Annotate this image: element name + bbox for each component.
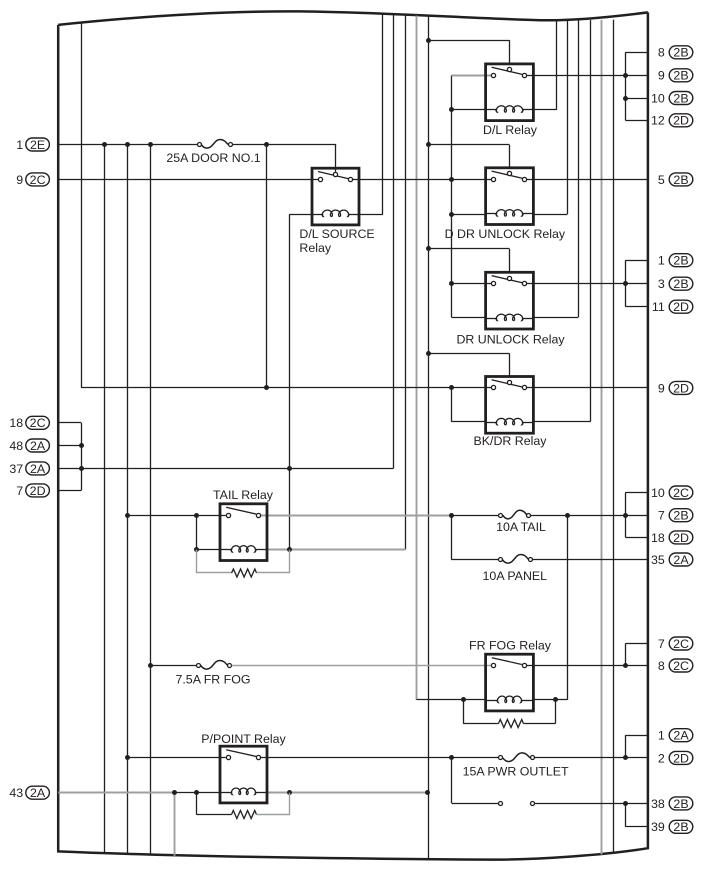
wire: bus x=451.9 segment PWR OUTLET row to 38(2B) row xyxy=(451,758,453,804)
wire: bus x=451.5 (coil feed) from D/L relay input row to DR UNLOCK coil xyxy=(451,75,453,317)
wire: bus x=290 D/L SOURCE coil-left down to TAIL coil row xyxy=(289,214,291,549)
wire: D DR UNLOCK relay top-pin feed xyxy=(428,144,510,146)
fuse F2 10A TAIL xyxy=(499,514,503,518)
wire: 7(2D) stub xyxy=(58,490,81,492)
wire: BK/DR coil-left from bus 451 xyxy=(452,421,487,423)
svg-text:18: 18 xyxy=(651,531,665,545)
wire: D/L relay output row to 9(2B) xyxy=(527,75,648,77)
wire: BK/DR relay top-pin feed xyxy=(428,353,510,355)
svg-text:2: 2 xyxy=(658,751,665,765)
wire: bus x=428 from top border to bottom border xyxy=(428,16,430,860)
svg-text:39: 39 xyxy=(651,820,665,834)
svg-text:10: 10 xyxy=(651,91,665,105)
svg-text:2C: 2C xyxy=(673,659,689,673)
svg-text:2B: 2B xyxy=(673,820,688,834)
wire: TAIL bypass left vertical xyxy=(196,515,198,549)
svg-text:D DR UNLOCK Relay: D DR UNLOCK Relay xyxy=(445,227,566,241)
fuse F5 15A PWR OUTLET xyxy=(499,756,503,760)
svg-text:7: 7 xyxy=(658,637,665,651)
resistor TAIL bypass xyxy=(196,550,198,573)
wire: 37(2A) row to bus 393.6 xyxy=(58,468,393,470)
wire: 9(2C) row to D/L SOURCE relay xyxy=(58,179,318,181)
wire: D DR UNLOCK output row to 5(2B) xyxy=(527,179,648,181)
svg-text:2B: 2B xyxy=(673,69,688,83)
svg-text:2D: 2D xyxy=(673,751,689,765)
svg-text:9: 9 xyxy=(658,69,665,83)
svg-text:2B: 2B xyxy=(673,46,688,60)
svg-text:37: 37 xyxy=(9,462,23,476)
svg-text:2D: 2D xyxy=(673,114,689,128)
fuse F4 7.5A FR FOG xyxy=(197,664,201,668)
svg-text:1: 1 xyxy=(658,254,665,268)
svg-text:D/L Relay: D/L Relay xyxy=(483,123,538,137)
svg-text:2A: 2A xyxy=(30,462,46,476)
svg-text:2D: 2D xyxy=(673,531,689,545)
wire: 43(2A) row (gray) to coil branch xyxy=(58,792,174,794)
wire: bracket 38(2B)-39(2B) xyxy=(625,803,627,826)
wire: D/L SOURCE coil-left lead xyxy=(289,214,313,216)
svg-text:2A: 2A xyxy=(30,786,46,800)
svg-text:5: 5 xyxy=(658,173,665,187)
svg-text:Relay: Relay xyxy=(299,241,331,255)
svg-text:2C: 2C xyxy=(673,486,689,500)
wire: DR UNLOCK input from bus 451 xyxy=(452,283,492,285)
svg-text:2A: 2A xyxy=(673,553,689,567)
svg-text:2B: 2B xyxy=(673,173,688,187)
wire: D/L SOURCE output to D DR UNLOCK relay input xyxy=(353,179,492,181)
relay P/POINT Relay xyxy=(201,732,286,803)
svg-text:2C: 2C xyxy=(673,637,689,651)
relay BK/DR Relay xyxy=(474,377,548,448)
svg-text:TAIL Relay: TAIL Relay xyxy=(213,488,274,502)
junction dots on 1(2E) row xyxy=(102,142,107,147)
svg-text:2D: 2D xyxy=(673,381,689,395)
svg-text:2B: 2B xyxy=(673,91,688,105)
wire: bus x=567.5 top border to D DR UNLOCK coil-right xyxy=(567,20,569,214)
wire: DR UNLOCK coil-left to bus 451 xyxy=(452,317,487,319)
wire: D/L SOURCE coil-right lead xyxy=(358,214,383,216)
relay D/L Relay xyxy=(483,64,538,137)
svg-text:7: 7 xyxy=(16,484,23,498)
wire: 1(2E) / 25A DOOR NO.1 row xyxy=(58,144,197,146)
wire: D/L SOURCE relay top-pin feed xyxy=(335,145,337,172)
wire: gray bus x=416.4 from top border to FR FOG coil row xyxy=(416,16,418,700)
wire: bus x=104.5 from 1(2E) row to bottom border xyxy=(104,145,106,854)
wire: bus x=382 D/L SOURCE coil-right up to top border xyxy=(382,14,384,214)
svg-text:8: 8 xyxy=(658,659,665,673)
wire: FR FOG output row to 8(2C) xyxy=(527,665,648,667)
relay FR FOG Relay xyxy=(469,639,552,711)
wire: BK/DR coil-right to bus 590 xyxy=(533,421,591,423)
wire: bus x=266 from 25A DOOR junction down to BK/DR row xyxy=(266,145,268,388)
relay D/L SOURCE Relay xyxy=(299,168,374,255)
wire: DR UNLOCK coil-right to bus 578 xyxy=(533,317,578,319)
wire: 7.5A FR FOG row from bus 150 xyxy=(150,665,196,667)
svg-text:12: 12 xyxy=(651,114,665,128)
wire: TAIL output (gray) to 10A TAIL fuse xyxy=(261,515,451,517)
wire: BK/DR output row to 9(2D) xyxy=(527,387,648,389)
svg-text:2C: 2C xyxy=(30,173,46,187)
svg-text:38: 38 xyxy=(651,797,665,811)
svg-text:10A TAIL: 10A TAIL xyxy=(496,520,546,534)
wire: left connector bracket 18(2C)-7(2D) xyxy=(81,423,83,491)
junction dot bracket 9(2B) xyxy=(623,73,628,78)
wire: bus x=393.6 from top border to 37(2A) row xyxy=(393,14,395,468)
svg-text:18: 18 xyxy=(9,416,23,430)
wire: DR UNLOCK relay top-pin feed xyxy=(428,248,510,250)
svg-text:25A DOOR NO.1: 25A DOOR NO.1 xyxy=(166,151,260,165)
svg-text:D/L SOURCE: D/L SOURCE xyxy=(299,227,374,241)
wire: bus x=567 segment 10A TAIL row to FR FOG coil node xyxy=(567,516,569,700)
wire: gray branch of 43(2A) row down to bottom border xyxy=(174,793,176,856)
wire: BK/DR input row from bus 81 xyxy=(81,387,492,389)
svg-text:8: 8 xyxy=(658,46,665,60)
svg-text:1: 1 xyxy=(658,729,665,743)
svg-text:10A PANEL: 10A PANEL xyxy=(483,569,548,583)
svg-text:7.5A FR FOG: 7.5A FR FOG xyxy=(175,673,250,687)
wire: bracket 8(2B)-12(2D) xyxy=(625,52,627,120)
relay DR UNLOCK Relay xyxy=(456,272,565,346)
relay D DR UNLOCK Relay xyxy=(445,168,566,241)
wire: bracket 1(2B)-11(2D) xyxy=(625,260,627,307)
resistor FR FOG bypass xyxy=(463,700,465,724)
svg-text:48: 48 xyxy=(9,439,23,453)
wire: bus x=150 from 1(2E) row to bottom border xyxy=(150,145,152,856)
wire: TAIL input row from bus 127 xyxy=(127,515,226,517)
wire: 10A PANEL row from bus 451 xyxy=(451,559,498,561)
svg-text:2C: 2C xyxy=(30,416,46,430)
svg-text:9: 9 xyxy=(16,173,23,187)
wire: bracket 10(2C)-18(2D) xyxy=(625,493,627,538)
wire: 43(2A) row to P/POINT coil xyxy=(174,792,220,794)
wire: 18(2C) stub xyxy=(58,422,81,424)
wire: D/L relay coil-left to bus 451 xyxy=(452,109,487,111)
svg-text:10: 10 xyxy=(651,486,665,500)
wire: D/L relay top-pin feed from bus 428 xyxy=(428,40,510,42)
wire: P/POINT output row to 15A PWR OUTLET xyxy=(261,757,499,759)
wire: 15A PWR OUTLET output row to 2(2D) xyxy=(534,757,648,759)
svg-text:FR FOG Relay: FR FOG Relay xyxy=(469,639,552,653)
wire: 10A TAIL output row to 7(2B) xyxy=(531,515,648,517)
svg-text:43: 43 xyxy=(9,786,23,800)
svg-text:2D: 2D xyxy=(673,300,689,314)
svg-text:1: 1 xyxy=(16,138,23,152)
svg-text:7: 7 xyxy=(658,509,665,523)
fuse F1 25A DOOR NO.1 xyxy=(198,143,202,147)
fuse F3 10A PANEL xyxy=(499,558,503,562)
resistor P/POINT bypass xyxy=(196,793,198,815)
svg-text:2B: 2B xyxy=(673,277,688,291)
junction dot bus451 x 9(2C) row xyxy=(449,177,454,182)
wire: 10A TAIL row fuse feed xyxy=(451,515,498,517)
wire: bus x=613.4 top border to bottom border xyxy=(613,20,615,854)
svg-text:P/POINT Relay: P/POINT Relay xyxy=(201,732,286,746)
svg-text:2A: 2A xyxy=(30,439,46,453)
wire: TAIL coil-right lead (gray) to bus 405.6 xyxy=(267,549,406,551)
wire: bus x=405.6 from top border to TAIL coil row xyxy=(405,15,407,550)
wire: 38(2B) row with open fuse holder xyxy=(452,803,499,805)
wire: gray input to D/L relay left pin xyxy=(452,75,492,77)
svg-text:DR UNLOCK Relay: DR UNLOCK Relay xyxy=(456,332,565,346)
svg-text:2E: 2E xyxy=(30,138,45,152)
wire: 7.5A FR FOG fuse to FR FOG relay input xyxy=(232,665,493,667)
svg-text:11: 11 xyxy=(652,300,665,314)
wire: bus x=590.4 top border to BK/DR coil-right xyxy=(590,20,592,422)
wire: bus x=451.5 segment BK/DR input row to BK/DR coil xyxy=(451,388,453,422)
wire: P/POINT coil-right (gray) to bus 428 xyxy=(267,792,428,794)
wire: FR FOG coil-right to bus 567 xyxy=(533,699,567,701)
svg-text:BK/DR Relay: BK/DR Relay xyxy=(474,434,548,448)
wire: D/L relay coil-right to bus 556 xyxy=(533,109,556,111)
svg-text:3: 3 xyxy=(658,277,665,291)
wire: bracket 7(2C)-8(2C) xyxy=(625,644,627,666)
svg-text:35: 35 xyxy=(651,553,665,567)
wire: bus x=451.5 segment 10A TAIL row to 10A PANEL row xyxy=(451,515,453,559)
wire: FR FOG coil-left from gray bus 416 xyxy=(416,699,486,701)
svg-text:2A: 2A xyxy=(673,729,689,743)
svg-text:2B: 2B xyxy=(673,797,688,811)
wire: P/POINT input row from bus 127 xyxy=(127,757,226,759)
wire: gray bus x=601.7 top border to bottom border xyxy=(601,20,603,855)
wire: 10A PANEL output to 35(2A) xyxy=(533,559,648,561)
wire: DR UNLOCK output row to 3(2B) xyxy=(527,283,648,285)
svg-text:2D: 2D xyxy=(30,484,46,498)
wire: bus x=127 from 1(2E) row to bottom border xyxy=(127,145,129,855)
wire: bus x=578 top border to DR UNLOCK coil-right xyxy=(578,21,580,318)
wire: TAIL coil-left lead xyxy=(197,549,221,551)
wire: bus x=81 from top border down to BK/DR row xyxy=(81,23,83,388)
relay TAIL Relay xyxy=(213,488,274,561)
svg-text:2B: 2B xyxy=(673,509,688,523)
wire: bus x=556 top border to D/L relay coil-right xyxy=(556,20,558,110)
wire: D DR UNLOCK coil-left to bus 451 xyxy=(452,214,487,216)
svg-text:15A PWR OUTLET: 15A PWR OUTLET xyxy=(463,764,569,778)
wire: bracket 1(2A)-2(2D) xyxy=(625,735,627,758)
wire: 48(2A) stub xyxy=(58,445,81,447)
svg-text:2B: 2B xyxy=(673,254,688,268)
wire: D DR UNLOCK coil-right to bus 567.5 xyxy=(533,214,568,216)
open fuse holder terminals xyxy=(499,802,503,806)
svg-text:9: 9 xyxy=(658,381,665,395)
